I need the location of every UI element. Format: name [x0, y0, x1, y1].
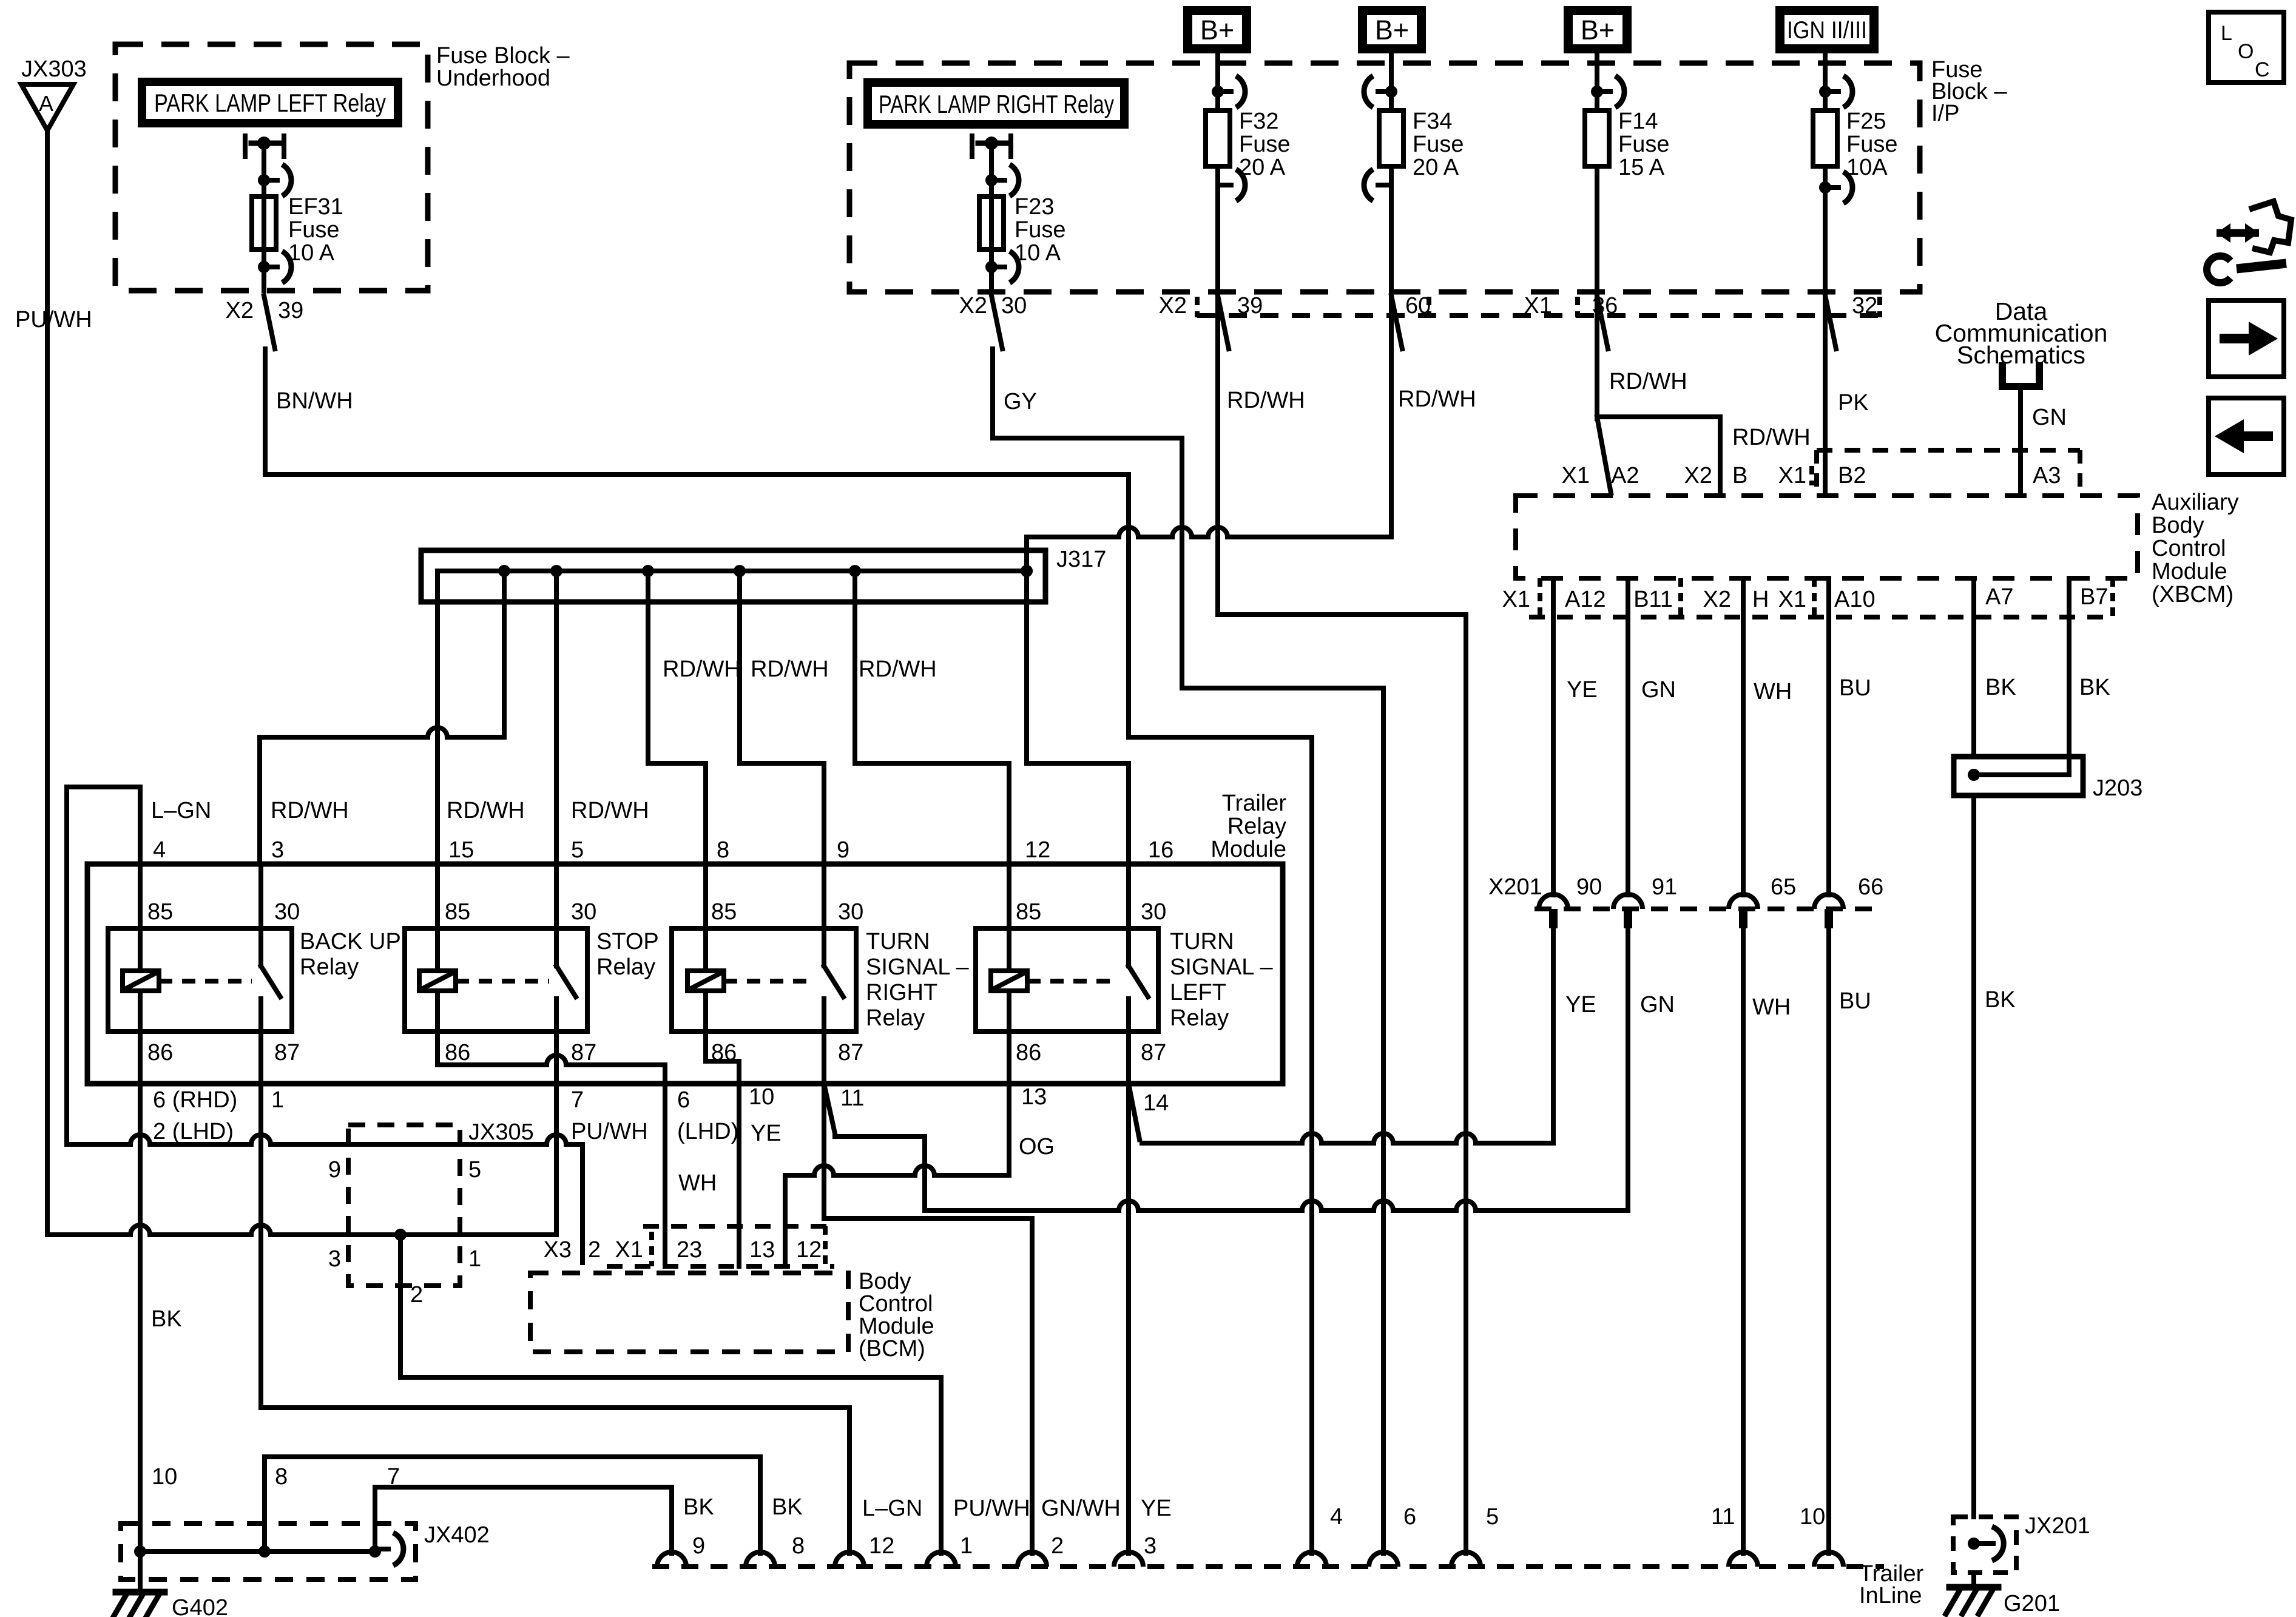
svg-text:RD/WH: RD/WH [859, 657, 937, 682]
wire J317 tap to relay pin 5 (RD/WH) [554, 571, 559, 864]
relay TURN LEFT dashed link [1027, 979, 1119, 984]
svg-text:PARK LAMP RIGHT Relay: PARK LAMP RIGHT Relay [879, 90, 1114, 118]
svg-text:Schematics: Schematics [1957, 341, 2085, 369]
svg-text:Fuse: Fuse [1015, 217, 1065, 243]
svg-text:JX402: JX402 [424, 1522, 490, 1548]
svg-text:G201: G201 [2004, 1591, 2060, 1616]
relay name box PARK LAMP RIGHT Relay [863, 78, 1129, 129]
svg-text:B2: B2 [1838, 463, 1866, 488]
relay TURN LEFT coil [1007, 864, 1011, 971]
svg-text:A7: A7 [1985, 584, 2013, 610]
splice block J317 [421, 550, 1045, 602]
wire TURN LEFT 87 pin 14 to trailer pin 3 (YE) [1126, 1031, 1131, 1553]
svg-text:WH: WH [678, 1170, 717, 1196]
wire backup coil feed line through JX305 pins 9-5 to BCM X3 pin 2 [67, 1135, 582, 1144]
X201 terminal pin 65 [1729, 894, 1758, 909]
wire BK from J203 to JX201/G201 [1971, 795, 1976, 1517]
svg-text:9: 9 [328, 1157, 341, 1183]
svg-text:Auxiliary: Auxiliary [2152, 490, 2239, 515]
svg-text:C: C [2255, 58, 2270, 81]
svg-text:30: 30 [1141, 899, 1166, 925]
svg-text:2: 2 [588, 1237, 601, 1263]
relay TURN RIGHT contact [822, 864, 826, 966]
wire GN below X201 to turn signal right output [1626, 928, 1630, 1210]
svg-text:10: 10 [749, 1084, 774, 1110]
svg-text:STOP: STOP [596, 929, 659, 954]
svg-text:30: 30 [274, 899, 300, 925]
X201 terminal pin 90 [1539, 894, 1568, 909]
svg-text:91: 91 [1652, 874, 1677, 900]
JX402 internal bus [140, 1549, 375, 1554]
trailer inline terminal pin 11 [1729, 1552, 1758, 1567]
svg-text:65: 65 [1771, 874, 1796, 900]
svg-text:YE: YE [1141, 1496, 1172, 1521]
svg-text:Module: Module [2152, 559, 2227, 584]
svg-text:Body: Body [2152, 513, 2204, 538]
svg-text:LEFT: LEFT [1170, 980, 1226, 1005]
svg-text:6 (RHD): 6 (RHD) [153, 1087, 237, 1113]
svg-text:8: 8 [792, 1533, 805, 1559]
relay STOP - box [405, 928, 587, 1031]
relay BACK UP dashed link [159, 979, 252, 984]
Trailer Relay Module box [87, 864, 1283, 1084]
svg-text:16: 16 [1148, 837, 1173, 863]
trailer inline terminal pin 12 [835, 1552, 864, 1567]
svg-text:YE: YE [751, 1121, 782, 1146]
svg-text:BK: BK [683, 1494, 714, 1520]
relay STOP coil [435, 864, 440, 971]
svg-text:11: 11 [1711, 1504, 1735, 1530]
fuse F32 20 A [1206, 110, 1230, 166]
svg-text:BACK UP: BACK UP [300, 929, 401, 954]
svg-text:L–GN: L–GN [151, 798, 211, 823]
svg-text:J317: J317 [1056, 547, 1106, 572]
BCM X1 pin row dashed [643, 1224, 834, 1229]
fuse block - I/P dashed box [849, 63, 1920, 292]
svg-text:RD/WH: RD/WH [1398, 387, 1476, 412]
svg-text:90: 90 [1576, 874, 1602, 900]
svg-text:30: 30 [838, 899, 863, 925]
relay BACK UP contact [258, 864, 263, 966]
legend box with right arrow [2209, 300, 2284, 377]
off-page connector triangle A (JX303) [21, 84, 73, 130]
relay TURN SIGNAL - LEFT - box [976, 928, 1158, 1031]
svg-text:SIGNAL –: SIGNAL – [1170, 954, 1274, 980]
svg-text:A: A [39, 91, 53, 116]
svg-text:F25: F25 [1846, 109, 1886, 134]
relay name box PARK LAMP LEFT Relay [138, 78, 402, 127]
trailer inline terminal pin 6 [1369, 1552, 1398, 1567]
fuse F23 10 A [979, 197, 1004, 249]
wire RD/WH from F32 [1215, 166, 1220, 615]
svg-text:13: 13 [1021, 1084, 1047, 1110]
svg-text:86: 86 [147, 1040, 173, 1065]
wire relay output to fuse EF31 [262, 143, 266, 291]
svg-text:8: 8 [717, 837, 729, 863]
svg-text:Trailer: Trailer [1222, 791, 1287, 816]
svg-text:BK: BK [151, 1306, 182, 1332]
inline connector Trailer InLine row [652, 1564, 1884, 1569]
J317 internal bus [437, 569, 1027, 573]
svg-text:7: 7 [571, 1087, 584, 1113]
wire JX402 pin 7 to trailer pin 9 (BK) [373, 1487, 377, 1551]
wire YE from XBCM A12 to X201 pin 90 [1551, 578, 1556, 895]
wire BU from XBCM A10 to X201 pin 66 [1826, 578, 1831, 895]
svg-text:RD/WH: RD/WH [751, 657, 829, 682]
svg-text:12: 12 [869, 1533, 894, 1559]
legend box with left arrow [2209, 398, 2284, 474]
svg-text:30: 30 [571, 899, 596, 925]
svg-text:WH: WH [1752, 994, 1791, 1020]
Auxiliary Body Control Module (XBCM) dashed box [1516, 496, 2138, 578]
wire BACK UP 87 pin 1 to trailer pin 12 (L-GN) [258, 1031, 263, 1408]
svg-text:RD/WH: RD/WH [1732, 425, 1811, 450]
svg-text:9: 9 [692, 1533, 705, 1559]
svg-text:4: 4 [153, 837, 166, 863]
trailer inline terminal pin 1 [927, 1552, 956, 1567]
svg-text:X1: X1 [1778, 463, 1806, 488]
svg-text:X2: X2 [226, 298, 254, 323]
svg-text:Relay: Relay [1227, 814, 1286, 839]
relay contact bracket (park lamp left) [243, 136, 248, 157]
svg-text:20 A: 20 A [1239, 155, 1286, 180]
svg-text:GN: GN [1641, 677, 1676, 703]
svg-text:PU/WH: PU/WH [15, 307, 92, 333]
svg-text:Control: Control [2152, 536, 2226, 561]
fuse F14 15 A [1585, 110, 1609, 166]
relay BACK UP - box [108, 928, 292, 1031]
svg-text:B7: B7 [2080, 584, 2108, 610]
wire BU below X201 to trailer inline pin 10 [1826, 928, 1831, 1553]
svg-text:A2: A2 [1611, 463, 1639, 488]
svg-text:86: 86 [445, 1040, 470, 1065]
svg-text:GY: GY [1004, 389, 1037, 414]
svg-text:2 (LHD): 2 (LHD) [153, 1119, 234, 1144]
svg-text:10 A: 10 A [1015, 240, 1061, 266]
svg-text:JX305: JX305 [468, 1119, 534, 1145]
svg-text:Module: Module [1210, 837, 1286, 862]
off-page bracket (data comm) [2002, 366, 2039, 387]
svg-text:GN: GN [2032, 405, 2067, 430]
svg-text:G402: G402 [172, 1595, 228, 1617]
svg-text:RD/WH: RD/WH [1609, 369, 1687, 394]
svg-text:30: 30 [1001, 293, 1027, 319]
wire WH below X201 to trailer inline pin 11 [1741, 928, 1746, 1553]
svg-text:Module: Module [859, 1314, 934, 1339]
wire JX305 pin 2 branch to trailer pin 1 (PU/WH) [398, 1235, 403, 1377]
relay TURN RIGHT coil [703, 864, 708, 971]
svg-text:2: 2 [410, 1282, 423, 1308]
svg-text:I/P: I/P [1931, 101, 1959, 126]
svg-text:(LHD): (LHD) [677, 1119, 738, 1144]
wire pin 14 branch to X201 YE [1140, 1133, 1553, 1143]
svg-text:87: 87 [571, 1040, 596, 1065]
svg-text:85: 85 [445, 899, 470, 925]
inline connector X201 row [1535, 906, 1884, 911]
svg-text:EF31: EF31 [288, 194, 343, 220]
wire B+ to fuse F34 [1389, 53, 1394, 110]
wire J317 tap to relay pin 8 (RD/WH) [646, 571, 650, 763]
wire GN horizontal from X201 to pin 11 node [925, 1201, 1628, 1210]
svg-text:X1: X1 [615, 1237, 643, 1263]
junction block JX402 dashed box [121, 1524, 416, 1579]
svg-text:H: H [1752, 587, 1769, 612]
ground G402 [138, 1551, 143, 1591]
svg-text:X2: X2 [1684, 463, 1712, 488]
svg-text:Fuse: Fuse [1618, 132, 1669, 157]
wire RD/WH from F34 to splice J317 [1389, 166, 1394, 537]
svg-text:JX201: JX201 [2025, 1513, 2090, 1539]
wire TURN RIGHT 87 pin 11 [822, 1031, 826, 1084]
svg-text:F34: F34 [1413, 109, 1452, 134]
svg-text:10 A: 10 A [288, 240, 335, 266]
relay TURN LEFT contact [1126, 864, 1131, 966]
svg-text:InLine: InLine [1859, 1583, 1922, 1609]
svg-text:13: 13 [749, 1237, 775, 1263]
svg-text:X1: X1 [1562, 463, 1590, 488]
svg-text:1: 1 [960, 1533, 973, 1559]
svg-text:Fuse: Fuse [288, 217, 339, 243]
power feed box IGN II/III (F25) [1775, 6, 1879, 53]
svg-text:RD/WH: RD/WH [571, 798, 649, 823]
XBCM top pin row B2 A3 dashed [1817, 448, 2080, 453]
svg-text:3: 3 [271, 837, 284, 863]
svg-text:X201: X201 [1488, 874, 1542, 900]
wire YE below X201 to turn signal left output [1551, 928, 1556, 1143]
fuse EF31 10 A [252, 197, 276, 249]
svg-text:TURN: TURN [866, 929, 930, 954]
relay STOP dashed link [456, 979, 549, 984]
svg-text:Relay: Relay [300, 954, 359, 980]
svg-text:RIGHT: RIGHT [866, 980, 937, 1005]
XBCM bottom pin row dashed [1529, 615, 2113, 619]
wire relay output to fuse F23 [989, 143, 994, 292]
svg-text:RD/WH: RD/WH [1227, 388, 1305, 413]
wire BACK UP 86 to JX402 (BK) [138, 1031, 143, 1551]
trailer inline terminal pin 3 [1114, 1552, 1143, 1567]
svg-text:B11: B11 [1633, 587, 1673, 612]
junction block JX201 dashed box [1953, 1517, 2016, 1573]
wire PU/WH line through JX305 pins 3-1 to STOP 87 [47, 1225, 556, 1235]
svg-text:B+: B+ [1200, 15, 1234, 46]
wire J317 tap to relay pin 12 (RD/WH) [853, 571, 857, 763]
wire WH from XBCM H to X201 pin 65 [1741, 578, 1746, 895]
svg-text:87: 87 [1141, 1040, 1166, 1065]
svg-text:F14: F14 [1618, 109, 1658, 134]
relay TURN SIGNAL - RIGHT - box [672, 928, 856, 1031]
X201 terminal pin 91 [1613, 894, 1643, 909]
svg-text:RD/WH: RD/WH [447, 798, 525, 823]
svg-text:85: 85 [711, 899, 737, 925]
trailer inline terminal pin 2 [1018, 1552, 1047, 1567]
Body Control Module (BCM) dashed box [530, 1273, 848, 1352]
relay BACK UP coil [138, 864, 143, 971]
wire J317 tap to relay pin 3 (RD/WH) [502, 571, 507, 737]
svg-text:BK: BK [772, 1494, 803, 1520]
svg-text:1: 1 [468, 1246, 481, 1272]
trailer inline terminal pin 9 [657, 1552, 686, 1567]
svg-text:1: 1 [271, 1087, 284, 1113]
svg-text:BK: BK [1985, 987, 2016, 1013]
svg-text:15 A: 15 A [1618, 155, 1665, 180]
svg-text:X2: X2 [1159, 293, 1187, 319]
svg-text:O: O [2238, 40, 2254, 63]
connector row dashed line under fuse block I/P [1197, 313, 1884, 318]
svg-text:PU/WH: PU/WH [953, 1496, 1030, 1521]
wire STOP 87 pin 7 (PU/WH) to JX305/JX303 [554, 1031, 559, 1235]
svg-text:Control: Control [859, 1291, 933, 1317]
svg-text:BU: BU [1839, 988, 1871, 1014]
wire TURN LEFT 86 pin 13 (OG) to BCM X1 pin 12 [1007, 1031, 1011, 1175]
svg-text:14: 14 [1143, 1090, 1169, 1116]
svg-text:6: 6 [677, 1087, 690, 1113]
wire J317 tap to relay pin 15 [435, 571, 440, 864]
svg-text:IGN II/III: IGN II/III [1787, 17, 1867, 44]
svg-text:Fuse: Fuse [1239, 132, 1290, 157]
svg-text:5: 5 [1486, 1504, 1499, 1530]
svg-text:BN/WH: BN/WH [276, 388, 353, 414]
svg-text:X3: X3 [544, 1237, 572, 1263]
svg-text:F32: F32 [1239, 109, 1278, 134]
svg-text:Relay: Relay [866, 1005, 925, 1031]
trailer inline terminal pin 4 [1297, 1552, 1326, 1567]
svg-text:WH: WH [1754, 679, 1792, 704]
svg-text:10: 10 [152, 1464, 177, 1490]
fuse F25 10A [1813, 110, 1837, 166]
svg-text:B: B [1732, 463, 1747, 488]
svg-text:66: 66 [1858, 874, 1883, 900]
svg-text:Fuse: Fuse [1413, 132, 1464, 157]
svg-text:15: 15 [448, 837, 474, 863]
relay TURN RIGHT dashed link [724, 979, 816, 984]
svg-text:YE: YE [1567, 677, 1598, 703]
wire B+ to fuse F32 [1215, 53, 1220, 110]
trailer inline terminal pin 5 [1451, 1552, 1481, 1567]
svg-text:3: 3 [328, 1246, 341, 1272]
svg-text:Relay: Relay [1170, 1005, 1229, 1031]
svg-text:OG: OG [1019, 1134, 1055, 1160]
svg-text:(BCM): (BCM) [859, 1336, 925, 1362]
svg-text:J203: J203 [2093, 775, 2142, 801]
relay STOP contact [554, 864, 559, 966]
svg-text:X2: X2 [959, 293, 987, 319]
svg-text:JX303: JX303 [21, 56, 87, 82]
svg-text:12: 12 [1025, 837, 1050, 863]
wire GN from XBCM B11 to X201 pin 91 [1626, 578, 1630, 895]
svg-text:X1: X1 [1502, 587, 1530, 612]
wire IGN to fuse F25 [1823, 53, 1828, 110]
svg-text:Underhood: Underhood [436, 66, 550, 91]
splice J203 [1954, 757, 2083, 795]
svg-text:L–GN: L–GN [862, 1496, 922, 1521]
wire RD/WH from F14 to XBCM A2 and B [1595, 166, 1599, 417]
power feed box B+ (F32) [1183, 6, 1251, 53]
wire J317 tap to relay pin 9 (RD/WH) [737, 571, 742, 763]
svg-text:85: 85 [147, 899, 173, 925]
svg-text:39: 39 [278, 298, 303, 323]
power feed box B+ (F14) [1564, 6, 1632, 53]
svg-text:GN/WH: GN/WH [1041, 1496, 1121, 1521]
svg-text:L: L [2221, 22, 2232, 45]
svg-text:A12: A12 [1565, 587, 1606, 612]
svg-text:9: 9 [837, 837, 849, 863]
svg-text:Body: Body [859, 1269, 911, 1294]
svg-text:BU: BU [1839, 675, 1871, 701]
svg-text:6: 6 [1403, 1504, 1416, 1530]
svg-text:GN: GN [1640, 992, 1675, 1018]
wire pin 11 branch to trailer pin 2 (GN/WH) [822, 1084, 826, 1218]
svg-text:RD/WH: RD/WH [271, 798, 349, 823]
svg-text:Fuse: Fuse [1846, 132, 1897, 157]
wire J317 tap to relay pin 16 (RD/WH) [1024, 571, 1029, 763]
wire BK from XBCM B7 to splice J203 [2067, 578, 2071, 775]
svg-text:A10: A10 [1834, 587, 1876, 612]
svg-text:Fuse Block –: Fuse Block – [436, 43, 570, 69]
fuse F34 20 A [1379, 110, 1403, 166]
svg-text:PK: PK [1838, 390, 1869, 416]
wire BK from XBCM A7 to splice J203 [1971, 578, 1976, 757]
svg-text:YE: YE [1565, 992, 1596, 1018]
wire JX402 pin 8 to trailer pin 8 (BK) [262, 1457, 267, 1551]
svg-text:23: 23 [677, 1237, 702, 1263]
trailer inline terminal pin 10 [1814, 1552, 1843, 1567]
svg-text:20 A: 20 A [1413, 155, 1459, 180]
svg-text:10A: 10A [1846, 155, 1888, 180]
svg-text:BK: BK [2079, 675, 2110, 700]
wire PK from F25 to XBCM B2 [1823, 166, 1828, 496]
relay contact bracket (park lamp right) [970, 136, 974, 157]
svg-text:X1: X1 [1778, 587, 1806, 612]
svg-text:RD/WH: RD/WH [663, 657, 741, 682]
LOC legend box [2209, 12, 2284, 83]
svg-text:2: 2 [1051, 1533, 1064, 1559]
svg-text:B+: B+ [1581, 15, 1615, 46]
trailer inline terminal pin 8 [746, 1552, 775, 1567]
wire GN to XBCM A3 [2018, 387, 2023, 496]
power feed box B+ (F34) [1358, 6, 1426, 53]
X201 terminal pin 66 [1814, 894, 1843, 909]
wire B+ to fuse F14 [1595, 53, 1599, 110]
svg-text:10: 10 [1800, 1504, 1825, 1530]
svg-text:B+: B+ [1375, 15, 1409, 46]
svg-text:5: 5 [468, 1157, 481, 1183]
svg-text:4: 4 [1330, 1504, 1343, 1530]
service/repair icon (arrows and wrench) [2217, 229, 2259, 237]
svg-text:11: 11 [840, 1085, 864, 1111]
svg-text:Relay: Relay [596, 954, 655, 980]
svg-text:3: 3 [1144, 1533, 1156, 1559]
svg-text:87: 87 [274, 1040, 300, 1065]
ground G201 [1971, 1573, 1976, 1585]
svg-text:85: 85 [1016, 899, 1041, 925]
junction block JX305 dashed box [348, 1125, 460, 1286]
svg-text:A3: A3 [2033, 463, 2061, 488]
svg-text:87: 87 [838, 1040, 863, 1065]
svg-text:SIGNAL –: SIGNAL – [866, 954, 970, 980]
wire TURN RIGHT 86 pin 10 (YE) to BCM X1 pin 13 [703, 1031, 708, 1061]
svg-text:TURN: TURN [1170, 929, 1234, 954]
svg-text:PU/WH: PU/WH [571, 1119, 648, 1144]
svg-text:F23: F23 [1015, 194, 1054, 220]
svg-text:PARK LAMP LEFT Relay: PARK LAMP LEFT Relay [154, 89, 386, 117]
wire to relay pin 4 (backup relay coil feed) [64, 787, 69, 1144]
fuse block - underhood dashed box [115, 44, 428, 291]
svg-text:BK: BK [1985, 675, 2016, 700]
wire STOP 86 to BCM X1 pin 23 (WH) [435, 1031, 440, 1065]
wire PU/WH from JX303 down left side [45, 130, 50, 1235]
svg-text:5: 5 [571, 837, 584, 863]
svg-text:12: 12 [796, 1237, 822, 1263]
